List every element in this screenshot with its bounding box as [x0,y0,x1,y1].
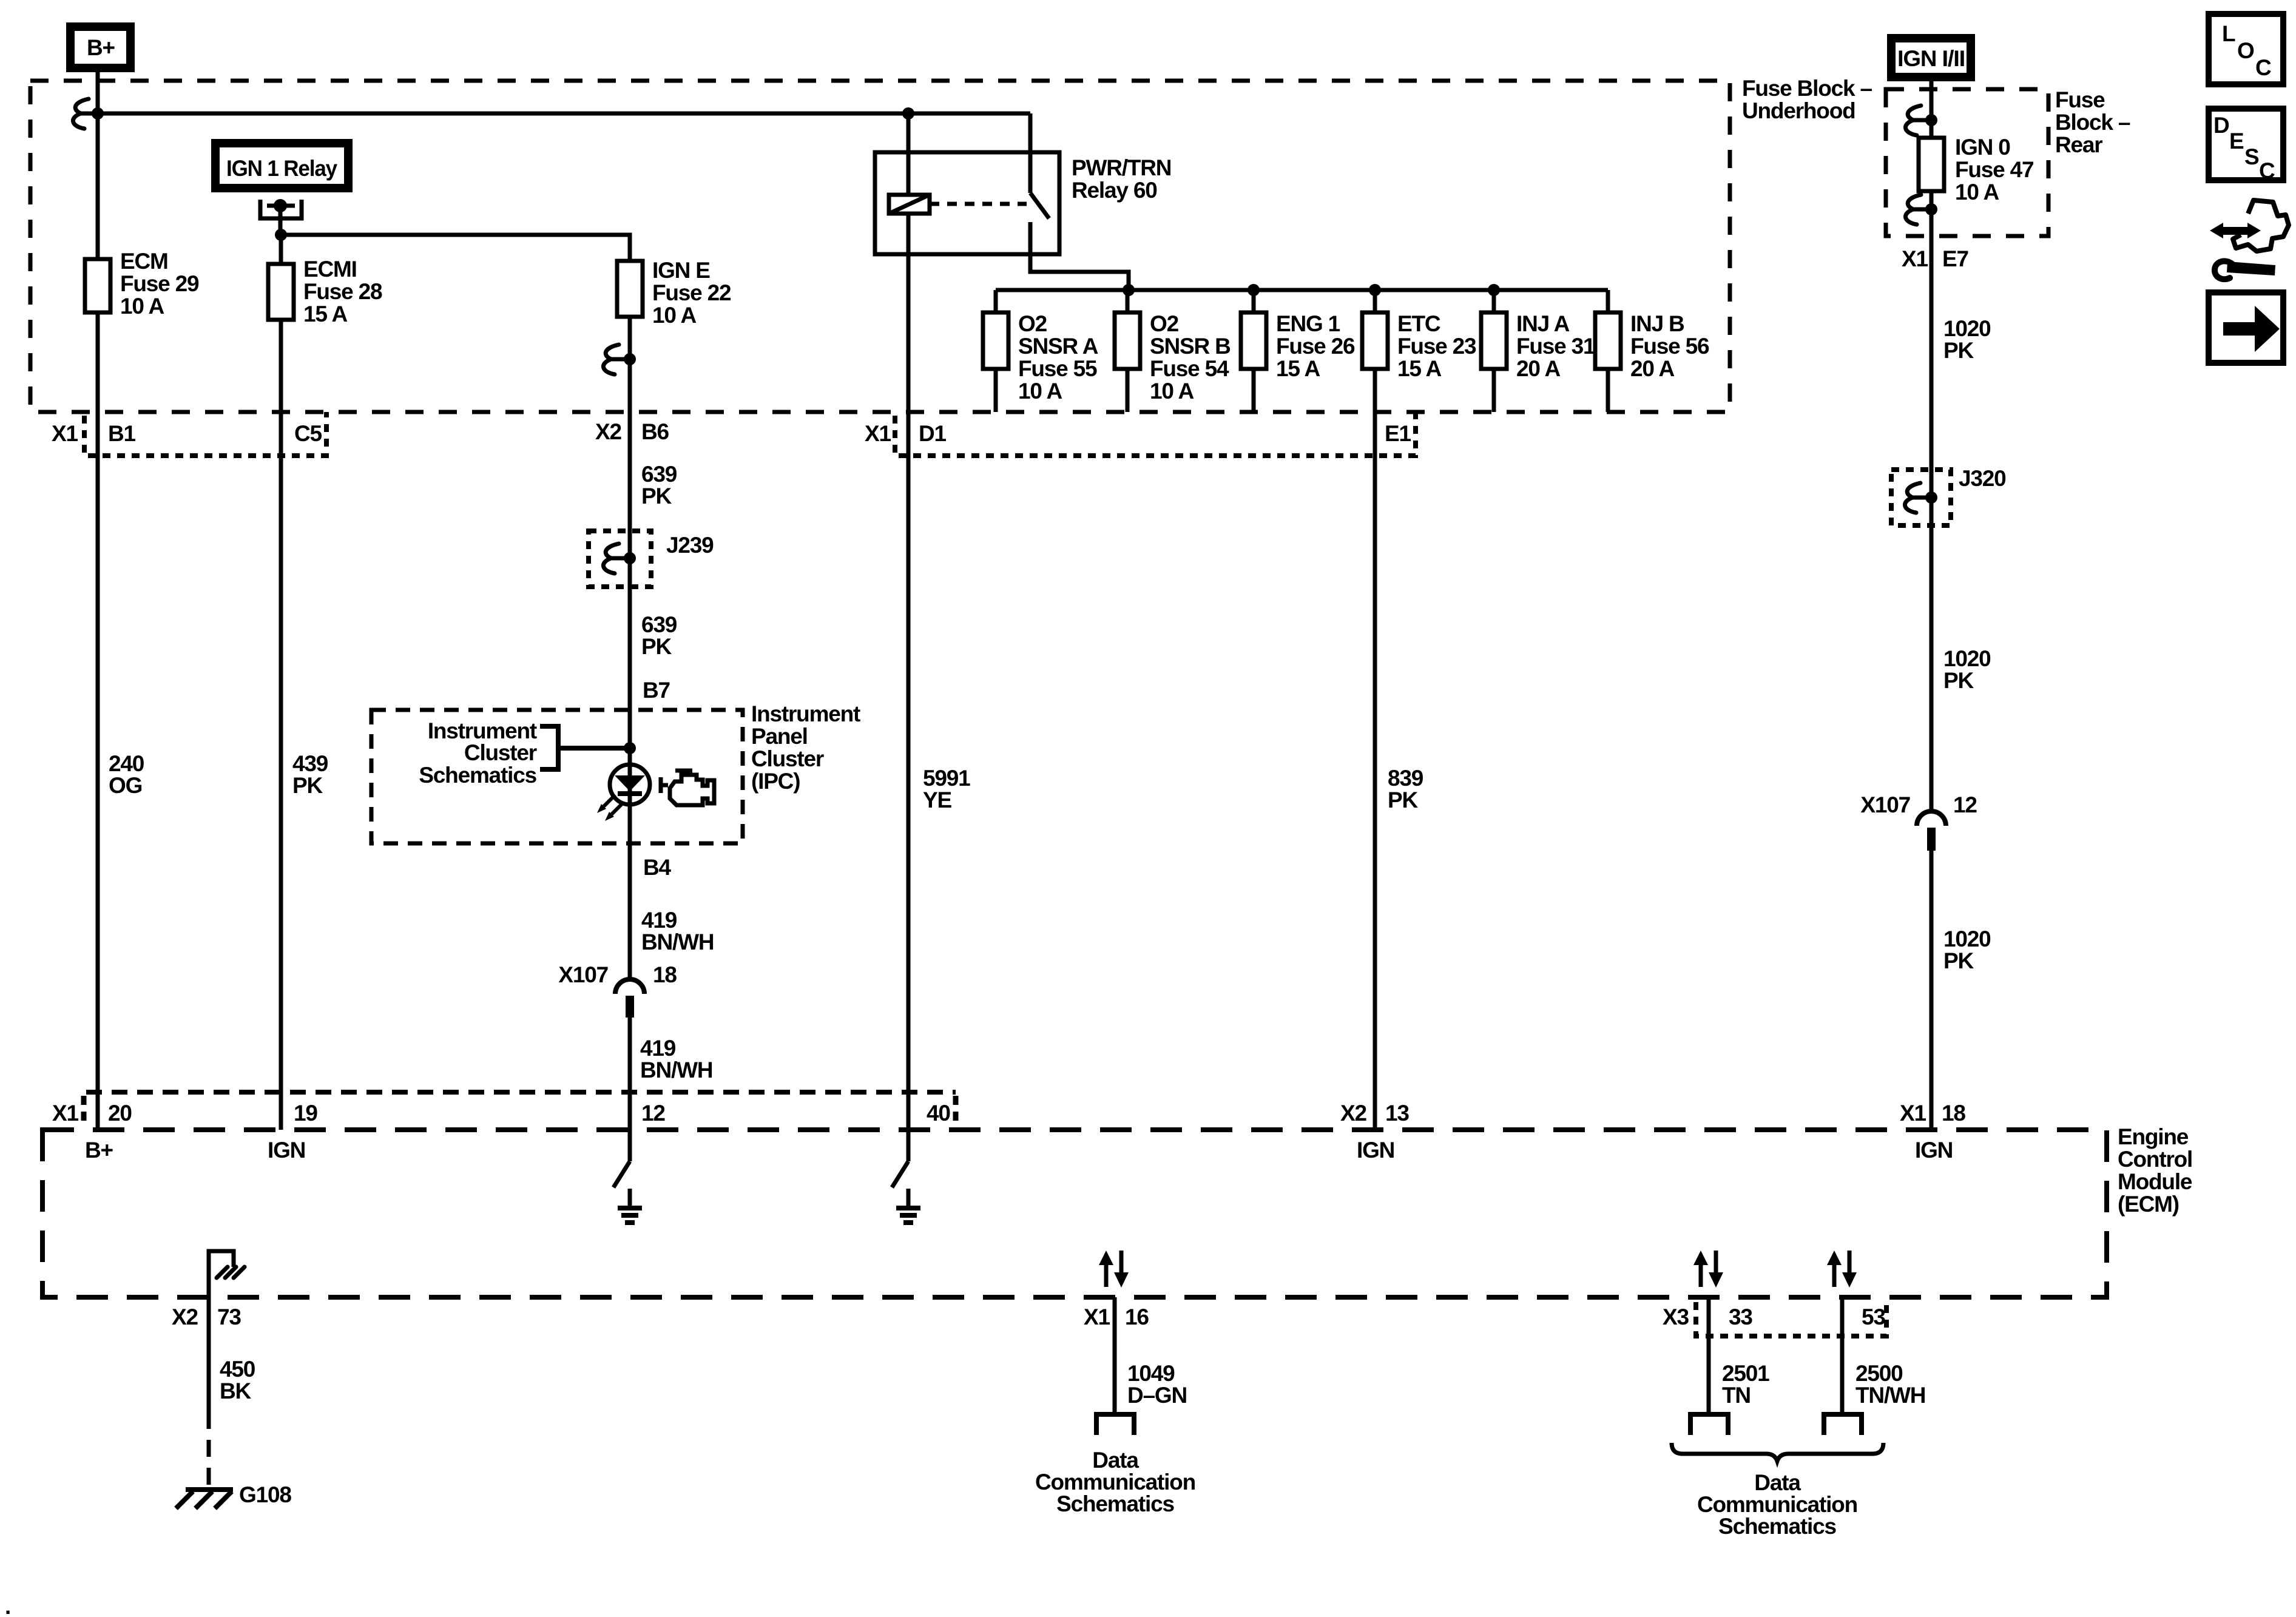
label Data Communication Schematics middle [1035,1448,1195,1516]
connector X107 pin 18 inline [558,962,677,1018]
svg-text:20 A: 20 A [1516,356,1560,381]
splice hook at B6 feed [603,345,636,374]
svg-text:IGN: IGN [1915,1138,1953,1163]
svg-text:Instrument: Instrument [751,701,860,726]
switch internal at pin 12 with ground [613,1130,642,1223]
svg-text:Schematics: Schematics [419,763,536,788]
svg-text:16: 16 [1125,1305,1149,1329]
svg-text:X1: X1 [865,421,891,446]
svg-text:2501: 2501 [1722,1361,1769,1386]
svg-text:ECMI: ECMI [303,257,357,282]
svg-text:Module: Module [2118,1169,2192,1194]
wire 1049 D-GN [1115,1297,1187,1414]
svg-text:PK: PK [1943,338,1974,363]
svg-text:73: 73 [217,1305,241,1329]
fuse ETC Fuse 23 [1362,290,1476,381]
svg-text:X107: X107 [1860,792,1910,817]
icon arrow box [2209,292,2283,363]
svg-text:E1: E1 [1385,421,1411,446]
svg-text:Fuse 23: Fuse 23 [1397,334,1476,359]
svg-text:240: 240 [109,751,144,776]
svg-text:2500: 2500 [1855,1361,1903,1386]
svg-text:B7: B7 [643,678,670,703]
svg-text:X2: X2 [595,419,621,444]
label wire 1020 PK second [1943,646,1991,693]
label Data Communication Schematics right [1697,1470,1857,1539]
svg-text:1020: 1020 [1943,316,1991,341]
svg-text:INJ A: INJ A [1516,311,1570,336]
svg-text:10 A: 10 A [1018,379,1062,403]
svg-text:18: 18 [653,962,677,987]
svg-text:Engine: Engine [2118,1124,2189,1149]
svg-text:X1: X1 [52,1101,78,1126]
svg-text:40: 40 [927,1101,950,1126]
icon check engine [661,771,714,805]
svg-text:Fuse 31: Fuse 31 [1516,334,1595,359]
label Fuse Block Rear [2055,87,2130,157]
wire B+ vertical into fuse block [96,72,100,259]
label Fuse Block Underhood [1742,76,1872,123]
svg-text:33: 33 [1729,1305,1752,1329]
svg-text:S: S [2244,144,2259,169]
svg-text:(IPC): (IPC) [751,769,800,794]
svg-text:Communication: Communication [1035,1470,1195,1494]
fuse ECM Fuse 29 [85,249,199,319]
svg-text:439: 439 [292,751,328,776]
fuse ENG 1 Fuse 26 [1241,290,1355,412]
svg-text:Block –: Block – [2055,110,2130,135]
arrows bidirectional at pin 33 [1693,1251,1723,1288]
relay switch PWR/TRN [1030,113,1129,290]
svg-text:O2: O2 [1150,311,1179,336]
arrows bidirectional at pin 16 [1099,1251,1129,1288]
connector X1 B1 C5 dashed box [52,412,326,456]
svg-text:Schematics: Schematics [1718,1514,1836,1539]
svg-text:X1: X1 [1902,246,1928,271]
svg-text:Fuse 55: Fuse 55 [1018,356,1097,381]
svg-text:G108: G108 [239,1482,291,1507]
svg-text:IGN 0: IGN 0 [1955,135,2010,160]
wire B+ bus horizontal [98,112,1030,116]
svg-text:Fuse 56: Fuse 56 [1630,334,1709,359]
node IGN I/II feed label box [1891,38,1971,77]
svg-text:10 A: 10 A [1150,379,1194,403]
svg-text:C: C [2255,55,2271,80]
node junction dot B+ bus [92,107,104,120]
svg-text:639: 639 [641,462,677,487]
svg-text:SNSR B: SNSR B [1150,334,1231,359]
ground internal at pin 73 [209,1251,245,1297]
off-page bracket data bus 33 [1690,1414,1728,1435]
label Engine Control Module ECM [2118,1124,2192,1217]
relay PWR/TRN Relay 60 [875,152,1171,254]
ECM pin function labels [85,1138,1953,1163]
svg-text:D–GN: D–GN [1127,1383,1187,1408]
connector X2 B6 labels [595,419,669,444]
label wire 5991 YE [923,766,970,812]
svg-text:PK: PK [1943,668,1974,693]
node junction dot IPC feed [624,742,636,754]
svg-text:TN: TN [1722,1383,1751,1408]
switch internal at pin 40 with ground [892,1130,920,1223]
svg-text:ENG 1: ENG 1 [1276,311,1340,336]
svg-text:839: 839 [1388,766,1423,791]
fuse INJ A Fuse 31 [1481,290,1595,412]
svg-text:419: 419 [641,908,677,933]
svg-text:ECM: ECM [120,249,168,274]
svg-text:Relay 60: Relay 60 [1072,178,1157,203]
svg-text:L: L [2222,21,2235,46]
label wire 1020 PK third [1943,927,1991,973]
svg-text:639: 639 [641,612,677,637]
svg-text:X2: X2 [172,1305,198,1329]
wire 450 BK to G108 [209,1297,255,1487]
label wire 639 PK upper [641,462,677,508]
svg-text:Data: Data [1754,1470,1801,1495]
splice hook below fuse 47 [1905,195,1937,224]
svg-text:15 A: 15 A [1397,356,1441,381]
connector X2 pin 73 labels [172,1305,241,1329]
splice hook above fuse 47 [1905,106,1937,135]
label wire 419 BN/WH lower [640,1036,712,1082]
svg-text:X1: X1 [52,421,78,446]
svg-text:IGN E: IGN E [652,258,710,283]
wire IGN I/II to fuse 47 [1930,81,1934,138]
svg-text:B6: B6 [641,419,669,444]
svg-text:PWR/TRN: PWR/TRN [1072,155,1171,180]
svg-text:5991: 5991 [923,766,970,791]
svg-text:BN/WH: BN/WH [641,930,714,954]
svg-text:Rear: Rear [2055,132,2102,157]
svg-text:Fuse 28: Fuse 28 [303,279,382,304]
splice hook at B+ bus [73,99,98,129]
svg-text:IGN: IGN [1357,1138,1394,1163]
svg-text:Cluster: Cluster [751,746,824,771]
fuse block rear dashed box [1886,89,2048,236]
fuse ECMI Fuse 28 [268,235,382,326]
svg-text:Cluster: Cluster [464,740,537,765]
fuse IGN E Fuse 22 [617,258,731,328]
fuse O2 SNSR B Fuse 54 [1115,290,1231,412]
svg-text:C: C [2259,158,2275,183]
label wire 419 BN/WH upper [641,908,714,954]
svg-text:PK: PK [641,484,672,508]
svg-text:Fuse: Fuse [2055,87,2105,112]
svg-text:12: 12 [641,1101,665,1126]
svg-text:Data: Data [1092,1448,1139,1473]
fuse block underhood dashed box [30,81,1730,412]
svg-text:PK: PK [292,773,323,798]
svg-text:20: 20 [108,1101,132,1126]
svg-text:10 A: 10 A [1955,180,1999,204]
label wire 240 OG [109,751,144,798]
splice J320 dashed box [1891,466,2006,525]
connector X107 pin 12 inline [1860,792,1977,851]
wire 5991 YE coil output down to ECM pin 40 [907,214,911,1130]
wire 439 PK from Fuse 28 to ECM pin 19 [279,320,283,1130]
label wire 1020 PK first [1943,316,1991,363]
svg-text:Fuse 26: Fuse 26 [1276,334,1355,359]
svg-text:O2: O2 [1018,311,1047,336]
svg-text:C5: C5 [294,421,322,446]
ECM pin labels row [52,1101,1965,1126]
ECM dashed box [42,1130,2107,1297]
svg-text:Panel: Panel [751,724,808,749]
fuse INJ B Fuse 56 [1595,290,1709,412]
off-page bracket data bus 53 [1824,1414,1862,1435]
node junction dots on fused bus [1123,284,1135,296]
svg-text:Communication: Communication [1697,1492,1857,1517]
brace over data buses [1672,1443,1883,1461]
wire 1020 PK to ECM pin 18 [1930,851,1934,1130]
svg-text:X2: X2 [1340,1101,1366,1126]
svg-text:B1: B1 [108,421,136,446]
svg-text:E7: E7 [1942,246,1968,271]
icon DESC box [2209,109,2283,183]
svg-text:.: . [5,1594,10,1617]
svg-text:10 A: 10 A [652,303,696,328]
svg-text:Control: Control [2118,1147,2192,1172]
lamp MIL indicator [597,765,650,821]
fuse IGN 0 Fuse 47 [1919,135,2033,204]
wire coil link dashed [930,202,1027,206]
svg-text:B4: B4 [643,855,672,880]
label wire 839 PK [1388,766,1423,812]
connector row fine dotted line above ECM [84,1092,956,1124]
wire fuse 47 down through rear block [1930,191,1934,812]
svg-text:53: 53 [1862,1305,1885,1329]
svg-text:19: 19 [294,1101,317,1126]
ground G108 [176,1482,291,1508]
svg-text:BK: BK [220,1379,252,1403]
svg-text:INJ B: INJ B [1630,311,1684,336]
icon vehicle double arrow and wrench [2210,200,2289,279]
relay IGN 1 contact symbol [260,199,302,235]
relay coil PWR/TRN [889,113,930,214]
label wire 639 PK lower [641,612,677,659]
svg-text:Instrument: Instrument [428,718,537,743]
svg-text:YE: YE [923,788,951,812]
svg-text:18: 18 [1942,1101,1965,1126]
svg-text:PK: PK [1943,948,1974,973]
svg-text:IGN I/II: IGN I/II [1897,46,1965,71]
svg-text:10 A: 10 A [120,294,164,319]
connector X1 D1 E1 dashed box [865,412,1416,456]
svg-text:15 A: 15 A [303,302,347,326]
svg-text:1020: 1020 [1943,646,1991,671]
svg-text:J320: J320 [1959,466,2006,491]
svg-text:450: 450 [220,1357,255,1382]
wire 2501 TN [1709,1297,1769,1414]
relay IGN 1 Relay label box [215,143,348,188]
svg-text:PK: PK [641,634,672,659]
label wire 439 PK [292,751,328,798]
svg-text:B+: B+ [85,1138,113,1163]
label Instrument Panel Cluster IPC [751,701,860,794]
wire IGN E fuse down to splice [628,317,632,979]
svg-text:13: 13 [1385,1101,1409,1126]
connector X1 E7 labels [1902,246,1968,271]
wire 839 PK from ETC fuse to ECM pin 13 [1373,369,1377,1130]
svg-text:Fuse Block –: Fuse Block – [1742,76,1872,101]
svg-text:12: 12 [1953,792,1977,817]
svg-text:E: E [2229,129,2244,154]
svg-text:Underhood: Underhood [1742,98,1855,123]
wire 2500 TN/WH [1842,1297,1925,1414]
svg-text:D: D [2213,113,2229,138]
arrows bidirectional at pin 53 [1827,1251,1857,1288]
svg-text:TN/WH: TN/WH [1855,1383,1925,1408]
svg-text:15 A: 15 A [1276,356,1320,381]
svg-text:X107: X107 [558,962,608,987]
svg-text:Schematics: Schematics [1056,1491,1174,1516]
node B+ feed label box [70,27,130,68]
svg-text:SNSR A: SNSR A [1018,334,1098,359]
svg-text:X3: X3 [1663,1305,1689,1329]
svg-text:ETC: ETC [1397,311,1440,336]
svg-text:PK: PK [1388,788,1418,812]
wire 240 OG from Fuse 29 to ECM pin 20 [96,312,100,1130]
svg-text:(ECM): (ECM) [2118,1192,2179,1217]
svg-text:1020: 1020 [1943,927,1991,951]
wire fused output bus [996,288,1608,292]
svg-text:J239: J239 [666,533,714,558]
svg-text:OG: OG [109,773,142,798]
instrument panel cluster dashed box [371,710,743,843]
svg-text:X1: X1 [1084,1305,1110,1329]
svg-text:20 A: 20 A [1630,356,1674,381]
svg-text:Fuse 22: Fuse 22 [652,280,731,305]
svg-text:B+: B+ [87,35,115,60]
svg-text:1049: 1049 [1127,1361,1175,1386]
svg-text:X1: X1 [1900,1101,1926,1126]
wire IGN 1 output to IGN E fuse [281,235,630,261]
label Instrument Cluster Schematics with bracket [419,718,630,788]
connector X3 pins 33 53 dashed box [1663,1302,1886,1336]
fuse O2 SNSR A Fuse 55 [983,290,1098,412]
svg-text:Fuse 29: Fuse 29 [120,271,199,296]
icon LOC box [2209,14,2283,84]
svg-text:Fuse 47: Fuse 47 [1955,157,2033,182]
node junction dot PWR/TRN feed [902,107,914,120]
svg-text:IGN: IGN [268,1138,305,1163]
node junction dot IGN 1 output [275,229,287,241]
svg-text:D1: D1 [919,421,947,446]
connector X1 pin 16 labels [1084,1305,1149,1329]
svg-text:BN/WH: BN/WH [640,1058,712,1082]
svg-text:Fuse 54: Fuse 54 [1150,356,1229,381]
svg-text:419: 419 [640,1036,676,1061]
splice J239 dashed box [589,531,714,587]
off-page bracket data bus 16 [1096,1414,1134,1435]
svg-text:IGN 1 Relay: IGN 1 Relay [226,156,338,181]
svg-text:O: O [2237,38,2254,63]
